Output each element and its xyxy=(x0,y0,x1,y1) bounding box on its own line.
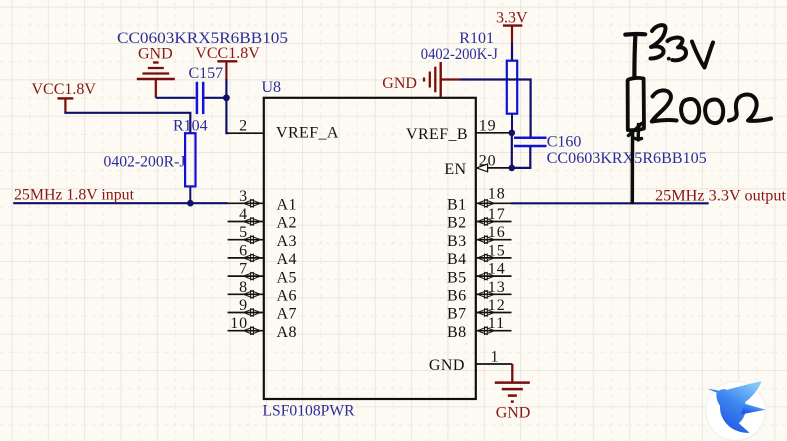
wire R104 bottom to input net xyxy=(189,186,191,203)
capacitor C160 xyxy=(514,134,707,168)
pin 15 B4 xyxy=(447,242,511,268)
pin 18 B1 xyxy=(447,185,511,213)
svg-text:U8: U8 xyxy=(262,79,282,96)
handwritten text 3.3V xyxy=(651,25,714,67)
wire 25MHz 3.3V output net xyxy=(511,202,709,204)
pin 1 GND xyxy=(429,349,512,375)
svg-text:GND: GND xyxy=(496,405,531,422)
svg-text:2: 2 xyxy=(239,118,248,135)
svg-text:B1: B1 xyxy=(447,197,466,214)
svg-text:VCC1.8V: VCC1.8V xyxy=(32,81,97,98)
svg-text:3.3V: 3.3V xyxy=(496,10,528,27)
svg-text:20: 20 xyxy=(479,152,497,169)
svg-text:B7: B7 xyxy=(447,306,466,323)
capacitor C157 xyxy=(189,65,224,114)
pin 9 A7 xyxy=(228,297,297,323)
svg-text:A8: A8 xyxy=(277,324,297,341)
svg-text:19: 19 xyxy=(479,117,497,134)
svg-text:8: 8 xyxy=(239,279,248,296)
svg-text:C160: C160 xyxy=(547,134,582,151)
ground GND bottom (earth bars) xyxy=(495,364,531,422)
node junction pin20 xyxy=(509,165,516,172)
svg-text:A3: A3 xyxy=(277,233,297,250)
svg-text:B2: B2 xyxy=(447,215,466,232)
power port VCC1.8V left xyxy=(32,81,97,112)
svg-text:A5: A5 xyxy=(277,269,297,286)
svg-text:LSF0108PWR: LSF0108PWR xyxy=(263,403,355,420)
pin 6 A4 xyxy=(228,242,297,268)
wire VCC1.8V to R104 top xyxy=(65,111,190,133)
svg-text:R101: R101 xyxy=(459,30,494,47)
svg-text:15: 15 xyxy=(488,242,506,259)
pin 4 A2 xyxy=(228,206,297,232)
pin 8 A6 xyxy=(228,279,297,305)
svg-text:VCC1.8V: VCC1.8V xyxy=(195,45,260,62)
wire C157 right plate to VREF_A node xyxy=(204,97,226,99)
svg-text:GND: GND xyxy=(382,75,417,92)
pin 13 B6 xyxy=(447,279,511,305)
svg-text:14: 14 xyxy=(488,261,506,278)
svg-text:A2: A2 xyxy=(277,215,297,232)
net label 25MHz 1.8V input xyxy=(14,187,135,204)
svg-text:B5: B5 xyxy=(447,269,466,286)
svg-text:VREF_B: VREF_B xyxy=(406,126,468,143)
svg-text:GND: GND xyxy=(138,46,173,63)
pin 19 VREF_B xyxy=(406,117,512,143)
pin 10 A8 xyxy=(228,315,297,341)
handwritten 3.3V power tee xyxy=(625,34,645,76)
svg-text:A1: A1 xyxy=(277,197,297,214)
pin 20 EN xyxy=(444,152,512,178)
label CC0603KRX5R6BB105 (C157 value) xyxy=(117,30,288,47)
svg-text:16: 16 xyxy=(488,224,506,241)
pin 16 B3 xyxy=(447,224,511,250)
svg-text:GND: GND xyxy=(429,357,465,374)
pin 14 B5 xyxy=(447,261,511,287)
wire 25MHz 1.8V input net xyxy=(13,202,228,204)
net label 25MHz 3.3V output xyxy=(655,188,787,205)
resistor R104 xyxy=(104,118,208,187)
wire GND to C157 left plate xyxy=(156,97,196,99)
svg-text:0402-200K-J: 0402-200K-J xyxy=(421,46,498,63)
ground GND right (sideways bars) xyxy=(382,62,459,97)
node junction on input net at R104 xyxy=(187,200,194,207)
pin 5 A3 xyxy=(228,224,297,250)
svg-text:C157: C157 xyxy=(189,65,224,82)
wire VREF_A node down to pin 2 xyxy=(226,79,228,133)
svg-text:B8: B8 xyxy=(447,324,466,341)
svg-text:0402-200R-J: 0402-200R-J xyxy=(104,154,186,171)
svg-text:A4: A4 xyxy=(277,251,297,268)
pin 7 A5 xyxy=(228,261,297,287)
handwritten wire down to output net xyxy=(631,130,635,203)
pin 12 B7 xyxy=(447,297,511,323)
svg-text:12: 12 xyxy=(488,297,506,314)
handwritten text 200ohm xyxy=(652,90,771,123)
svg-text:B6: B6 xyxy=(447,288,466,305)
svg-text:10: 10 xyxy=(230,315,248,332)
pin 11 B8 xyxy=(447,315,511,341)
power port VCC1.8V top (over C157) xyxy=(195,45,260,80)
svg-text:B4: B4 xyxy=(447,251,466,268)
wire GND to C160 top plate (crosses R101) xyxy=(460,80,531,137)
part value LSF0108PWR xyxy=(263,403,355,420)
svg-text:11: 11 xyxy=(488,315,505,332)
logo circle xyxy=(706,381,765,440)
svg-text:9: 9 xyxy=(239,297,248,314)
svg-text:13: 13 xyxy=(488,279,506,296)
handwritten resistor box xyxy=(628,78,644,130)
svg-text:5: 5 xyxy=(239,224,248,241)
svg-text:VREF_A: VREF_A xyxy=(276,124,339,141)
svg-text:CC0603KRX5R6BB105: CC0603KRX5R6BB105 xyxy=(547,150,707,167)
svg-text:A7: A7 xyxy=(277,306,297,323)
pin 2 VREF_A xyxy=(228,118,339,142)
svg-text:6: 6 xyxy=(239,242,248,259)
wire R101 bottom to pin 19 xyxy=(511,114,513,133)
wire 3.3V to R101 top xyxy=(511,44,513,61)
svg-text:25MHz 3.3V output: 25MHz 3.3V output xyxy=(655,188,787,205)
pin 3 A1 xyxy=(228,188,297,214)
svg-text:EN: EN xyxy=(444,161,466,178)
IC U8 body xyxy=(264,98,476,399)
wire C160 bottom plate to pin20 node xyxy=(512,147,531,168)
designator U8 xyxy=(262,79,282,96)
svg-text:A6: A6 xyxy=(277,288,297,305)
svg-text:CC0603KRX5R6BB105: CC0603KRX5R6BB105 xyxy=(117,30,288,47)
resistor R101 xyxy=(421,30,517,114)
node junction VREF_A / VCC1.8V xyxy=(223,94,230,101)
logo bird xyxy=(707,381,765,433)
node junction pin19 xyxy=(509,130,516,137)
power port 3.3V xyxy=(496,10,528,45)
handwritten resistor lower lead squiggle xyxy=(629,124,642,141)
svg-text:3: 3 xyxy=(239,188,248,205)
svg-text:25MHz 1.8V input: 25MHz 1.8V input xyxy=(14,187,135,204)
svg-text:18: 18 xyxy=(488,185,506,202)
ground GND top-left (earth bars) xyxy=(137,46,175,98)
svg-text:1: 1 xyxy=(491,349,500,366)
pin 17 B2 xyxy=(447,206,511,232)
svg-text:17: 17 xyxy=(488,206,506,223)
svg-text:R104: R104 xyxy=(173,118,208,135)
svg-text:4: 4 xyxy=(239,206,248,223)
svg-text:7: 7 xyxy=(239,261,248,278)
wire pin19 node to pin20 node xyxy=(511,133,513,168)
svg-text:B3: B3 xyxy=(447,233,466,250)
